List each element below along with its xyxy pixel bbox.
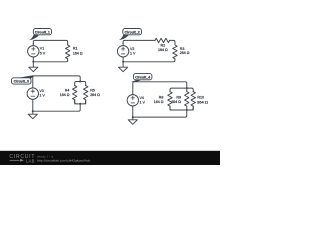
svg-text:R4: R4: [65, 88, 70, 92]
resistor R2: [155, 38, 170, 42]
resistor R4: [72, 85, 76, 104]
svg-text:V4: V4: [140, 96, 144, 100]
voltage source V4: [127, 95, 138, 117]
svg-text:164 Ω: 164 Ω: [154, 100, 164, 104]
svg-text:R9: R9: [176, 96, 181, 100]
svg-text:5 V: 5 V: [40, 51, 46, 55]
svg-text:http://circuitlab.com/c/k42gkp: http://circuitlab.com/c/k42gkpyufhck: [37, 158, 91, 162]
CircuitLab logo: [9, 154, 34, 163]
wire bottom bar Circuit_3: [75, 100, 86, 104]
svg-text:R5: R5: [90, 88, 95, 92]
svg-text:Circuit_1: Circuit_1: [35, 30, 50, 34]
ground Circuit_3: [28, 111, 37, 119]
wire top bar Circuit_3: [75, 82, 86, 86]
label R8 value 164 ohm: [154, 96, 164, 105]
junction node Circuit_1 bottom: [32, 61, 34, 63]
resistor R3: [173, 44, 177, 61]
wire top Circuit_4: [133, 82, 187, 95]
junction node Circuit_4 bottom-left: [132, 116, 134, 118]
svg-text:364 Ω: 364 Ω: [197, 100, 208, 104]
junction node Circuit_4 top: [186, 87, 188, 89]
label R1 value 164 ohm: [73, 47, 83, 56]
label R4 value 164 ohm: [60, 88, 70, 97]
svg-text:V1: V1: [40, 47, 44, 51]
svg-text:164 Ω: 164 Ω: [73, 51, 83, 55]
svg-text:R2: R2: [160, 44, 165, 48]
ground Circuit_1: [29, 62, 38, 72]
svg-text:R3: R3: [180, 47, 185, 51]
svg-text:1 V: 1 V: [140, 100, 146, 104]
svg-text:Circuit_4: Circuit_4: [135, 75, 150, 79]
svg-text:R10: R10: [197, 95, 204, 99]
wire bottom Circuit_2: [123, 60, 175, 62]
node label Circuit_2: [119, 29, 142, 41]
label R9 value 264 ohm: [171, 96, 181, 105]
ground Circuit_2: [119, 62, 128, 72]
node label Circuit_3: [12, 75, 34, 84]
svg-text:264 Ω: 264 Ω: [180, 51, 190, 55]
resistor R9: [185, 88, 189, 110]
resistor R5: [83, 85, 87, 104]
label R2 value 164 ohm: [158, 44, 168, 53]
voltage source V3: [27, 88, 38, 111]
svg-text:264 Ω: 264 Ω: [90, 93, 100, 97]
footer bar: [0, 151, 220, 165]
resistor R8: [168, 91, 172, 110]
node label Circuit_4: [131, 74, 152, 82]
resistor R10: [191, 91, 195, 110]
svg-text:164 Ω: 164 Ω: [158, 48, 168, 52]
label V1 value 5 V: [40, 47, 46, 56]
svg-text:164 Ω: 164 Ω: [60, 93, 70, 97]
svg-text:Circuit_3: Circuit_3: [14, 80, 29, 84]
svg-text:1 V: 1 V: [130, 52, 136, 56]
label R5 value 264 ohm: [90, 88, 100, 97]
wire bottom bar Circuit_4: [170, 106, 193, 110]
junction node Circuit_2 bottom: [122, 61, 124, 63]
junction node Circuit_3 top: [79, 81, 81, 83]
voltage source V1: [28, 44, 39, 62]
label V2 value 1 V: [130, 47, 136, 56]
resistor R1: [65, 44, 69, 61]
wire bottom Circuit_4: [133, 110, 187, 117]
junction node Circuit_3 bottom-left: [32, 110, 34, 112]
svg-text:Circuit_2: Circuit_2: [125, 30, 140, 34]
label R10 value 364 ohm: [197, 95, 208, 104]
svg-text:LAB: LAB: [26, 158, 35, 163]
junction node Circuit_4 bottom bar: [186, 109, 188, 111]
wire top-left Circuit_2: [123, 40, 155, 43]
svg-text:V2: V2: [130, 47, 134, 51]
wire top bar Circuit_4: [170, 88, 193, 92]
wire top Circuit_3: [33, 76, 80, 88]
ground Circuit_4: [128, 117, 137, 124]
label V4 value 1 V: [140, 96, 146, 105]
svg-text:R1: R1: [73, 47, 78, 51]
node label Circuit_1: [29, 29, 51, 41]
wire top Circuit_1: [33, 40, 67, 44]
svg-text:R8: R8: [159, 96, 164, 100]
voltage source V2: [117, 44, 128, 62]
label R3 value 264 ohm: [180, 47, 190, 55]
svg-text:264 Ω: 264 Ω: [171, 100, 181, 104]
svg-text:1 V: 1 V: [39, 94, 45, 98]
wire bottom Circuit_1: [33, 60, 67, 62]
wire bottom Circuit_3: [33, 104, 80, 111]
svg-text:V3: V3: [39, 89, 43, 93]
svg-text:wingx.l / a: wingx.l / a: [37, 154, 53, 158]
wire top-right Circuit_2: [170, 40, 175, 44]
junction node Circuit_3 bottom bar: [79, 103, 81, 105]
label V3 value 1 V: [39, 89, 45, 98]
